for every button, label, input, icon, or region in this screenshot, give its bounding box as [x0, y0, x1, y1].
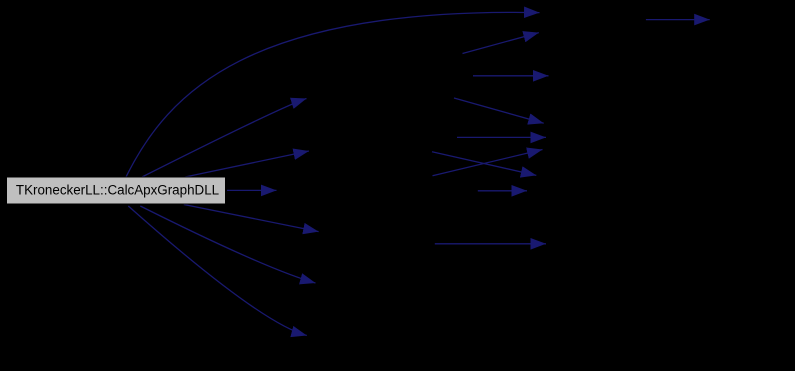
edge E2 — [463, 33, 539, 54]
edge E9 — [435, 243, 546, 245]
edge E7 — [432, 152, 536, 176]
edge E6 — [433, 150, 543, 176]
edge B3 — [128, 206, 306, 336]
edge T1 long curve main to far top node — [126, 12, 540, 177]
edge B2 — [140, 206, 315, 283]
edge B1 — [184, 205, 319, 232]
edge E8 — [478, 190, 527, 192]
edge F1 — [646, 19, 710, 21]
edge R1 — [227, 189, 277, 191]
edge E5 — [457, 136, 546, 138]
edge T2 — [142, 99, 307, 178]
edge T3 — [185, 151, 309, 177]
edge E4 — [454, 98, 544, 123]
edge E3 — [473, 75, 549, 77]
node TKroneckerLL::CalcApxGraphDLL — [7, 177, 226, 204]
svg-text:TKroneckerLL::CalcApxGraphDLL: TKroneckerLL::CalcApxGraphDLL — [16, 183, 219, 198]
